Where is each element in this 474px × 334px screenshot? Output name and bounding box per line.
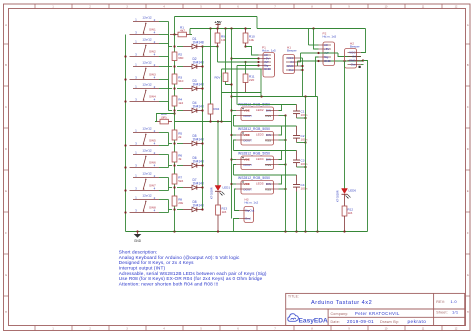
connector H1 Beeper xyxy=(283,46,300,74)
wire GND P1 left xyxy=(222,68,259,70)
svg-text:12v/12: 12v/12 xyxy=(142,15,152,19)
wire ground drop x317 xyxy=(317,97,319,232)
WS2812 module LED3 xyxy=(236,127,279,145)
svg-text:GND: GND xyxy=(134,239,142,243)
switch SW8 xyxy=(130,193,160,212)
svg-text:910: 910 xyxy=(178,79,183,83)
svg-text:(0R): (0R) xyxy=(161,115,167,119)
wire H2 Out stub xyxy=(361,64,364,66)
title text Arduino Tastatur 4x2 xyxy=(311,300,372,306)
capacitor C2 100n xyxy=(293,126,308,143)
LED LED1 KT-3528R xyxy=(210,122,231,200)
wire P1 GND down xyxy=(259,69,262,97)
svg-text:SW8: SW8 xyxy=(149,205,156,209)
svg-text:Short description:: Short description: xyxy=(119,250,158,255)
svg-text:Gnd: Gnd xyxy=(245,217,251,221)
svg-text:100n: 100n xyxy=(301,162,308,166)
WS2812 module LED2 xyxy=(236,102,279,120)
switch SW3 xyxy=(130,60,160,79)
svg-text:C: C xyxy=(467,106,469,109)
wire LED3 DIN chain xyxy=(234,116,297,136)
wire Sig to P1 xyxy=(237,64,260,104)
resistor R0V8 bridge xyxy=(215,29,228,82)
svg-text:R04: R04 xyxy=(214,107,220,111)
resistor R8 20k xyxy=(172,196,184,206)
svg-text:1k2: 1k2 xyxy=(178,101,183,105)
wire LED4 VSS xyxy=(279,163,287,165)
wire t1 to R9 xyxy=(203,45,219,47)
wire LED4 VDD xyxy=(232,159,237,161)
svg-text:Date:: Date: xyxy=(331,320,341,324)
connector H3 Hd.m. 1x2 xyxy=(239,198,259,223)
wire R1 to +5V rail xyxy=(173,29,192,36)
svg-text:12v/12: 12v/12 xyxy=(142,126,152,130)
wire H3 Sig from LED5 DOUT xyxy=(235,189,240,211)
wire LED4 DIN chain xyxy=(234,140,297,160)
svg-text:D: D xyxy=(467,148,469,151)
svg-text:H: H xyxy=(5,311,7,314)
svg-text:GND: GND xyxy=(264,67,272,71)
svg-text:WS2812_RGB_5050: WS2812_RGB_5050 xyxy=(238,151,270,155)
svg-text:12v/12: 12v/12 xyxy=(142,60,152,64)
wire INT diode bus xyxy=(201,45,203,210)
wire R0V8 to VDD line xyxy=(226,82,232,85)
wire INT to P1 xyxy=(218,47,260,64)
svg-text:EasyEDA: EasyEDA xyxy=(299,318,329,325)
sheet cell xyxy=(436,310,459,315)
wire LED2 DIN chain xyxy=(238,105,297,111)
svg-text:1k6: 1k6 xyxy=(348,211,353,215)
svg-text:12v/12: 12v/12 xyxy=(142,193,152,197)
svg-text:220: 220 xyxy=(249,78,254,82)
svg-text:Arduino Tastatur 4x2: Arduino Tastatur 4x2 xyxy=(311,300,372,306)
switch SW7 xyxy=(130,171,160,190)
svg-text:KT-3528R: KT-3528R xyxy=(336,190,340,202)
svg-text:LED5: LED5 xyxy=(256,181,264,185)
wire LED5 VSS xyxy=(279,188,287,190)
resistor R9 10k xyxy=(215,29,226,47)
svg-text:Sheet:: Sheet: xyxy=(436,311,448,315)
svg-text:Drawn By:: Drawn By: xyxy=(380,320,399,324)
svg-text:10k: 10k xyxy=(249,38,254,42)
LED LED6 KT-3528R xyxy=(336,61,357,202)
svg-text:Attention: never shorten both: Attention: never shorten both R04 and R0… xyxy=(119,281,219,286)
wire H3 Gnd xyxy=(234,219,240,232)
svg-text:2k: 2k xyxy=(178,135,182,139)
wire GND P2 to H2 line xyxy=(298,60,364,66)
svg-text:680: 680 xyxy=(178,56,183,60)
svg-text:Hd.m. 1x5: Hd.m. 1x5 xyxy=(323,35,337,39)
svg-text:3k: 3k xyxy=(178,157,182,161)
svg-text:R0V: R0V xyxy=(215,75,221,79)
svg-text:Hd.m. 1x2: Hd.m. 1x2 xyxy=(245,201,259,205)
wire H1 pins xyxy=(300,58,304,97)
svg-text:Interrupt output (INT): Interrupt output (INT) xyxy=(119,266,166,271)
svg-text:SW6: SW6 xyxy=(149,160,156,164)
svg-text:LED3: LED3 xyxy=(256,132,264,136)
svg-text:pekrato: pekrato xyxy=(408,319,427,324)
svg-text:SW5: SW5 xyxy=(149,138,156,142)
wire C1 to ground bus xyxy=(297,117,307,119)
wire C4 to ground bus xyxy=(0,0,1,1)
switch SW5 xyxy=(130,126,160,145)
wire SW4 output xyxy=(159,89,172,111)
resistor R7 5k6 xyxy=(172,174,183,184)
wire ladder chain xyxy=(173,35,175,232)
wire Sig loop y92 xyxy=(222,69,262,122)
switch SW1 xyxy=(130,15,160,34)
svg-text:SW4: SW4 xyxy=(149,94,156,98)
wire SW6 output xyxy=(159,155,172,168)
resistor R11 220 xyxy=(243,61,255,93)
svg-text:12v/12: 12v/12 xyxy=(142,37,152,41)
wire P2 A0 xyxy=(309,29,319,46)
svg-text:5k6: 5k6 xyxy=(178,179,183,183)
resistor R04 0R bridge xyxy=(208,29,219,122)
svg-text:Company:: Company: xyxy=(331,312,349,316)
wire +5V to P1 xyxy=(232,57,260,59)
svg-text:KT-3528R: KT-3528R xyxy=(210,187,214,199)
wire C3 to ground bus xyxy=(297,166,307,168)
wire +5V rail xyxy=(190,27,251,29)
svg-text:Analog Keyboard for Arduino (@: Analog Keyboard for Arduino (@output A0)… xyxy=(119,255,240,260)
wire LED2 VDD xyxy=(232,110,237,112)
svg-text:100n: 100n xyxy=(301,113,308,117)
wire R08 left loop xyxy=(155,114,175,122)
svg-text:G: G xyxy=(5,274,7,277)
wire VSS ground drop xyxy=(285,116,287,232)
svg-text:2019-09-01: 2019-09-01 xyxy=(347,319,374,324)
capacitor C4 100n xyxy=(293,175,308,192)
wire C2 to ground bus xyxy=(297,141,307,143)
wire LED5 VDD xyxy=(232,183,237,185)
capacitor C3 100n xyxy=(293,151,308,168)
diode D7 1N4148 xyxy=(177,178,204,190)
diode D4 1N4148 xyxy=(177,101,204,113)
wire LED3 VSS xyxy=(279,139,287,141)
diode D1 1N4148 xyxy=(177,37,204,49)
svg-text:SW1: SW1 xyxy=(149,27,156,31)
resistor R5 2k xyxy=(172,130,182,140)
wire cap ground drop x305 xyxy=(305,97,307,232)
title block xyxy=(286,293,465,325)
svg-text:WS2812_RGB_5050: WS2812_RGB_5050 xyxy=(238,127,270,131)
svg-text:Out: Out xyxy=(250,209,255,213)
svg-text:Peter KRATOCHVIL: Peter KRATOCHVIL xyxy=(355,311,400,316)
diode D5 1N4148 xyxy=(177,134,204,146)
wire P2 +5V xyxy=(314,29,319,50)
diode D2 1N4148 xyxy=(177,57,204,69)
connector H2 Beeper xyxy=(345,42,362,68)
resistor R2 680 xyxy=(172,52,184,61)
svg-text:TITLE:: TITLE: xyxy=(288,295,299,299)
resistor R12 1k6 xyxy=(342,194,353,231)
EasyEDA logo xyxy=(288,314,328,325)
WS2812 module LED5 xyxy=(236,176,279,194)
wire SW1 output xyxy=(159,22,172,47)
svg-text:Use R08 (for 8 Keys) EX-OR R04: Use R08 (for 8 Keys) EX-OR R04 (for 2x4 … xyxy=(119,276,263,281)
wire GND distribution y96.5 xyxy=(232,95,318,97)
svg-text:12v/12: 12v/12 xyxy=(142,82,152,86)
svg-text:C: C xyxy=(5,106,7,109)
connector P2 Hd.m. 1x5 xyxy=(319,32,337,66)
ground GND xyxy=(134,232,142,243)
svg-text:Designed for 8 Keys, or 2x 4 K: Designed for 8 Keys, or 2x 4 Keys xyxy=(119,260,194,265)
power +5V symbol xyxy=(214,20,222,29)
svg-text:1/1: 1/1 xyxy=(452,310,459,315)
svg-text:SW3: SW3 xyxy=(149,72,156,76)
wire SW5 output xyxy=(159,133,172,146)
wire H2 VCC to +5V xyxy=(361,29,366,53)
wire left GND rail xyxy=(124,35,126,232)
svg-text:D: D xyxy=(5,148,7,151)
svg-text:12v/12: 12v/12 xyxy=(142,148,152,152)
svg-text:100n: 100n xyxy=(301,137,308,141)
svg-text:12v/12: 12v/12 xyxy=(142,171,152,175)
date row xyxy=(331,319,427,324)
svg-text:H: H xyxy=(467,311,469,314)
diode D6 1N4148 xyxy=(177,156,204,168)
resistor R08 0R bridge xyxy=(155,112,172,124)
wire R10 to P1 A0 xyxy=(246,47,259,56)
wire A0 rail to P2 xyxy=(257,27,366,29)
wire LED2 VSS xyxy=(279,114,287,116)
wire LED5 DIN chain xyxy=(234,165,297,185)
diode D8 1N4148 xyxy=(177,200,204,212)
svg-text:Out: Out xyxy=(351,63,356,67)
svg-text:20k: 20k xyxy=(178,201,183,205)
switch SW6 xyxy=(130,148,160,167)
wire SW7 output xyxy=(159,178,172,191)
svg-text:1N4148: 1N4148 xyxy=(193,41,204,45)
svg-text:G: G xyxy=(467,274,469,277)
wire P2 Sig down xyxy=(316,57,319,97)
svg-text:1k6: 1k6 xyxy=(222,210,227,214)
wire ladder mid to R04 row xyxy=(175,120,232,122)
capacitor C1 100n xyxy=(293,105,308,119)
WS2812 module LED4 xyxy=(236,151,279,169)
switch SW2 xyxy=(130,37,160,56)
diode D3 1N4148 xyxy=(177,79,204,91)
company row xyxy=(331,311,400,316)
svg-text:REV:: REV: xyxy=(436,300,445,304)
svg-text:1.0: 1.0 xyxy=(451,299,458,304)
description text block xyxy=(119,250,267,287)
svg-text:SW2: SW2 xyxy=(149,49,156,53)
resistor R13 1k6 xyxy=(216,191,228,231)
switch SW4 xyxy=(130,82,160,101)
wire +5V VDD feed xyxy=(230,29,232,219)
rev cell xyxy=(436,299,457,304)
wire bottom GND rail xyxy=(126,230,368,232)
resistor R1 4k7 xyxy=(170,25,192,36)
wire SW8 output xyxy=(159,200,172,213)
wire SW2 output xyxy=(159,44,172,67)
resistor R6 3k xyxy=(172,152,182,162)
svg-text:4k7: 4k7 xyxy=(180,29,185,33)
svg-text:Beeper: Beeper xyxy=(287,49,297,53)
wire SW3 output xyxy=(159,67,172,89)
resistor R10 10k xyxy=(243,29,255,48)
svg-text:Adressable, serial WS2812B LED: Adressable, serial WS2812B LEDs between … xyxy=(119,271,267,276)
svg-text:100n: 100n xyxy=(301,186,308,190)
wire LED3 VDD xyxy=(232,134,237,136)
connector P1 Hd.m. 1x5 xyxy=(259,46,277,77)
wire C4 ground xyxy=(296,192,298,232)
wire INT to P2 and H2 xyxy=(301,52,362,62)
resistor R4 1k2 xyxy=(172,96,183,106)
svg-text:SW7: SW7 xyxy=(149,183,156,187)
svg-text:+5V: +5V xyxy=(214,20,222,25)
svg-text:LED4: LED4 xyxy=(256,157,264,161)
wire A0 net top rail xyxy=(175,17,258,35)
svg-text:GND: GND xyxy=(324,59,332,63)
svg-text:LED2: LED2 xyxy=(256,108,264,112)
svg-text:WS2812_RGB_5050: WS2812_RGB_5050 xyxy=(238,176,270,180)
svg-text:LED1: LED1 xyxy=(223,185,231,189)
svg-text:LED6: LED6 xyxy=(349,188,357,192)
svg-text:Out: Out xyxy=(289,68,294,72)
resistor R3 910 xyxy=(172,74,184,84)
wire H2 GND to ground xyxy=(361,59,368,231)
